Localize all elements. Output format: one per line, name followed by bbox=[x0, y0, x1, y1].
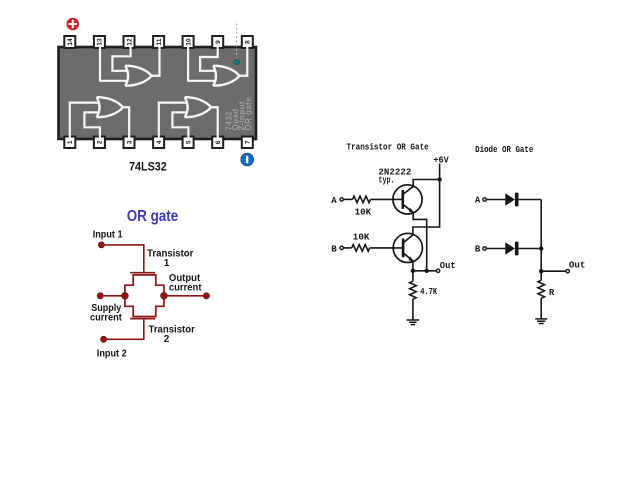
wire resistor to Q1 base bbox=[371, 198, 403, 200]
wire pin2 to gate A lower input bbox=[84, 112, 100, 139]
svg-text:B: B bbox=[331, 244, 337, 254]
svg-text:14: 14 bbox=[67, 38, 74, 46]
pin 14 bbox=[64, 36, 75, 48]
svg-text:Out: Out bbox=[569, 261, 586, 271]
wire pin4 to gate B upper input bbox=[159, 103, 188, 140]
pin 13 bbox=[94, 36, 105, 48]
wire resistor to Q2 base bbox=[370, 247, 403, 249]
transistor T2 gate bar bbox=[130, 318, 155, 320]
svg-text:Transistor OR Gate: Transistor OR Gate bbox=[347, 143, 429, 153]
wire pin5 to gate B lower input bbox=[172, 112, 188, 139]
pin 10 bbox=[183, 36, 194, 48]
or-gate A (pins 1,2 -> 3) bbox=[97, 97, 123, 117]
resistor 10K (input B) bbox=[352, 245, 370, 252]
wire B to resistor bbox=[343, 247, 351, 249]
ground (diode circuit) bbox=[535, 319, 547, 324]
pin 7 bbox=[242, 137, 253, 149]
or-gate D (pins 13,12 -> 11) bbox=[125, 66, 151, 86]
output terminal dot bbox=[203, 293, 209, 299]
pin 3 bbox=[124, 137, 135, 149]
out bus wire bbox=[413, 270, 437, 272]
or-gate C (pins 10,9 -> 8) bbox=[213, 66, 239, 86]
dashed probe line bbox=[236, 24, 238, 59]
node out junction (diode circuit) bbox=[539, 269, 543, 273]
resistor 10K (input A) bbox=[353, 196, 371, 203]
wire input2 to T2 gate bbox=[104, 319, 144, 339]
wire right junction to output bbox=[164, 295, 207, 297]
svg-text:2: 2 bbox=[97, 140, 104, 144]
svg-text:4.7K: 4.7K bbox=[420, 287, 437, 297]
svg-text:10K: 10K bbox=[353, 232, 370, 242]
svg-text:4: 4 bbox=[156, 140, 163, 144]
wire D1 to junction column bbox=[519, 199, 542, 201]
svg-text:Out: Out bbox=[440, 261, 456, 271]
wire A to diode D1 bbox=[486, 199, 505, 201]
pin 1 bbox=[64, 137, 75, 149]
wire junction to resistor R bbox=[540, 271, 542, 280]
wire gate B output to pin6 bbox=[210, 107, 218, 139]
add (+) button bbox=[67, 18, 80, 31]
wire out bus to resistor 4.7K bbox=[412, 271, 414, 281]
wire gate A output to pin3 bbox=[122, 107, 129, 139]
pin 4 bbox=[153, 137, 164, 149]
IC chip body U1 74LS32 bbox=[59, 47, 257, 139]
svg-text:Diode OR Gate: Diode OR Gate bbox=[475, 145, 533, 155]
node right junction bbox=[161, 293, 168, 300]
or-gate B (pins 4,5 -> 6) bbox=[185, 97, 211, 117]
terminal Out (transistor circuit) bbox=[436, 269, 439, 272]
transistor T1 channel bbox=[125, 275, 164, 296]
svg-text:11: 11 bbox=[156, 38, 163, 45]
wire junction column bbox=[540, 200, 542, 272]
svg-text:3: 3 bbox=[126, 140, 133, 144]
pin 2 bbox=[94, 137, 105, 149]
svg-text:7: 7 bbox=[245, 140, 252, 144]
wire resistor to ground bbox=[412, 299, 414, 320]
svg-text:typ.: typ. bbox=[378, 175, 394, 185]
info button bbox=[241, 153, 254, 166]
svg-text:A: A bbox=[475, 196, 481, 206]
svg-text:10K: 10K bbox=[355, 208, 372, 218]
pin 11 bbox=[153, 36, 164, 48]
svg-text:1: 1 bbox=[67, 140, 74, 144]
terminal Out (diode circuit) bbox=[566, 270, 569, 273]
wire B to diode D2 bbox=[486, 248, 505, 250]
svg-text:A: A bbox=[331, 196, 337, 206]
transistor T2 channel bbox=[125, 296, 164, 317]
input 1 terminal dot bbox=[98, 242, 104, 248]
transistor Q1 2N2222 bbox=[393, 185, 422, 214]
wire Q1 collector to +6V rail bbox=[413, 180, 439, 187]
node Q1 collector / rail bbox=[437, 177, 441, 181]
svg-text:8: 8 bbox=[245, 40, 252, 44]
wire Q2 emitter to out bus bbox=[412, 261, 414, 271]
svg-text:10: 10 bbox=[185, 38, 192, 46]
wire pin1 to gate A upper input bbox=[70, 103, 100, 140]
svg-text:6: 6 bbox=[215, 140, 222, 144]
svg-text:Input 2: Input 2 bbox=[97, 348, 127, 359]
node Q1 emitter junction bbox=[425, 269, 429, 273]
svg-text:12: 12 bbox=[126, 38, 133, 46]
wire gate C output to pin8 bbox=[238, 47, 247, 76]
diode D1 bbox=[505, 193, 518, 207]
node D2 junction bbox=[539, 246, 543, 250]
svg-text:R: R bbox=[549, 288, 555, 298]
node Q2 emitter junction bbox=[411, 269, 415, 273]
svg-text:13: 13 bbox=[97, 38, 104, 46]
terminal A bbox=[340, 198, 343, 201]
wire pin9 to gate C upper input bbox=[200, 47, 218, 71]
resistor 4.7K bbox=[410, 281, 417, 299]
wire pin13 to gate D lower input bbox=[100, 47, 128, 81]
transistor T1 gate bar bbox=[130, 272, 155, 274]
ground (transistor circuit) bbox=[407, 320, 420, 325]
terminal B bbox=[340, 246, 343, 249]
svg-text:74LS32: 74LS32 bbox=[129, 160, 167, 174]
pin 5 bbox=[183, 137, 194, 149]
pin 12 bbox=[124, 36, 135, 48]
wire to Out terminal (diode circuit) bbox=[541, 270, 566, 272]
probe dot (teal) bbox=[235, 60, 240, 65]
svg-text:+6V: +6V bbox=[433, 155, 449, 165]
transistor Q2 2N2222 bbox=[393, 233, 422, 262]
wire gate D output to pin11 bbox=[150, 47, 159, 76]
resistor R bbox=[538, 280, 545, 298]
svg-text:current: current bbox=[90, 312, 122, 323]
terminal A (diode circuit) bbox=[483, 198, 486, 201]
wire supply to left junction bbox=[100, 295, 125, 297]
node left junction bbox=[122, 293, 129, 300]
wire A to resistor bbox=[343, 198, 352, 200]
svg-text:Transistor: Transistor bbox=[147, 248, 193, 259]
wire +6V rail down to Q2 collector bbox=[413, 164, 440, 235]
pin 8 bbox=[242, 36, 253, 48]
terminal B (diode circuit) bbox=[483, 247, 486, 250]
input 2 terminal dot bbox=[101, 336, 107, 342]
svg-text:OR gate: OR gate bbox=[244, 97, 253, 131]
pin 6 bbox=[212, 137, 223, 149]
svg-text:1: 1 bbox=[164, 258, 170, 269]
svg-text:2: 2 bbox=[164, 334, 170, 345]
svg-text:Transistor: Transistor bbox=[149, 325, 195, 336]
svg-text:OR gate: OR gate bbox=[127, 208, 179, 225]
wire D2 to junction column bbox=[519, 248, 542, 250]
svg-text:current: current bbox=[169, 282, 202, 293]
wire resistor R to ground bbox=[540, 298, 542, 319]
wire pin10 to gate C lower input bbox=[188, 47, 216, 81]
pin 9 bbox=[212, 36, 223, 48]
svg-text:Input 1: Input 1 bbox=[93, 229, 123, 240]
wire Q1 emitter to out bus bbox=[413, 212, 427, 270]
svg-text:5: 5 bbox=[185, 140, 192, 144]
wire pin12 to gate D upper input bbox=[112, 47, 130, 71]
svg-text:9: 9 bbox=[215, 40, 222, 44]
supply terminal dot bbox=[97, 293, 103, 299]
svg-text:B: B bbox=[475, 245, 481, 255]
diode D2 bbox=[505, 242, 518, 256]
wire input1 to T1 gate bbox=[101, 245, 143, 272]
